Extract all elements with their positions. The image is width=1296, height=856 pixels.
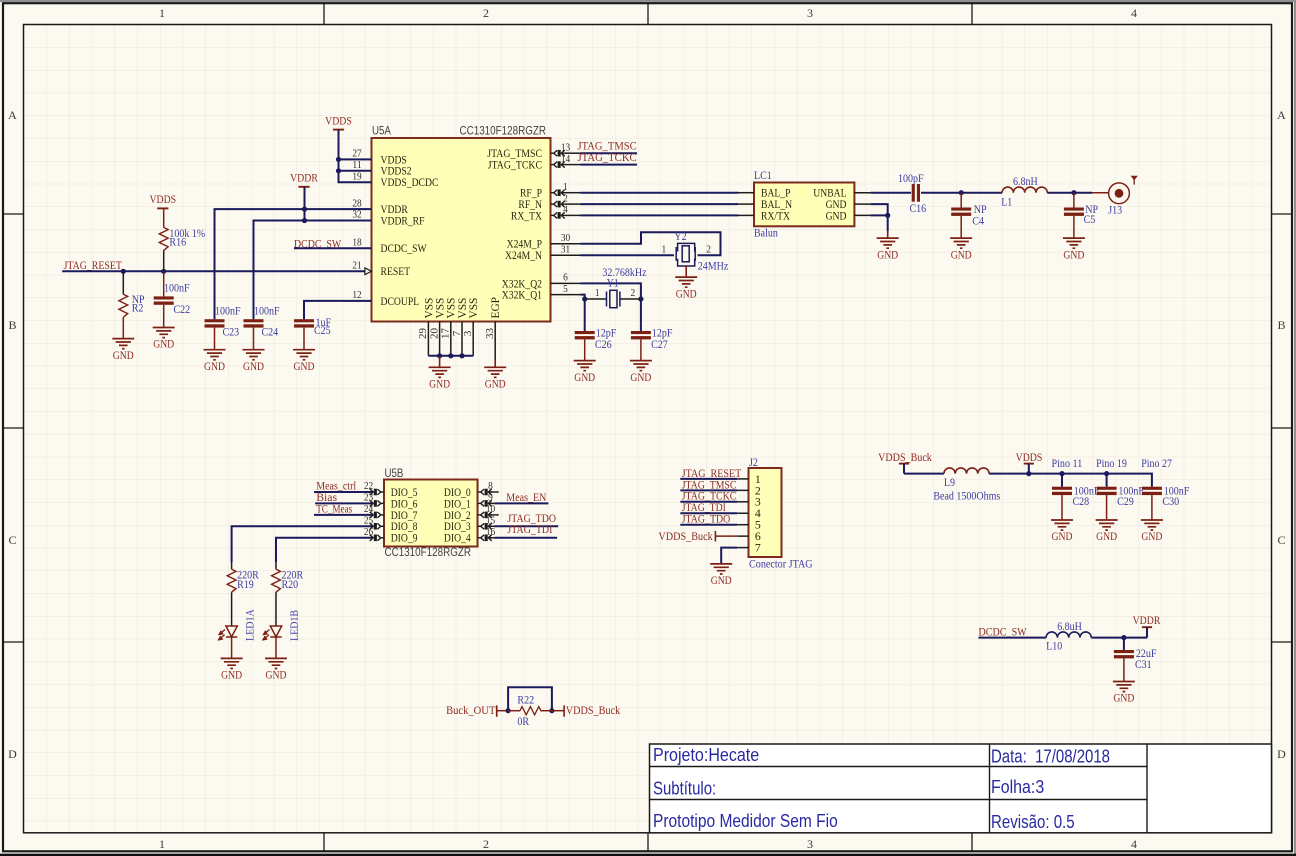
ground symbol under C28 [1051,520,1073,530]
svg-text:VSS: VSS [423,298,435,319]
svg-text:19: 19 [352,170,362,182]
svg-text:7: 7 [755,541,761,555]
U5A pin 4 RX_TX [511,204,581,223]
capacitor C26 12pF [575,328,617,361]
junction VDDR pin32 [302,218,307,223]
svg-text:A: A [8,108,17,122]
svg-text:CC1310F128RGZR: CC1310F128RGZR [385,546,472,559]
svg-text:D: D [1277,747,1286,761]
svg-text:VDDS: VDDS [381,154,407,166]
svg-text:GND: GND [1113,692,1134,705]
svg-text:32: 32 [352,209,361,221]
svg-text:DIO_2: DIO_2 [444,510,471,522]
U5A pin 32 VDDR_RF [341,209,425,228]
svg-text:RF_N: RF_N [518,199,542,211]
svg-text:100nF: 100nF [254,306,280,318]
wire C16 to L1 [921,192,1002,194]
U5B pin 23 DIO_6 [364,492,418,511]
svg-text:A: A [1277,108,1286,122]
wire X24M_P to Y2 pin2 [581,232,721,255]
wire L10 to VDDR [1091,637,1147,639]
svg-text:Balun: Balun [754,228,778,240]
svg-text:B: B [1277,318,1285,332]
junction VDDS tap [1026,471,1031,476]
svg-text:DCDC_SW: DCDC_SW [381,243,427,255]
ground symbol under C22 [153,328,175,338]
svg-text:Pino 27: Pino 27 [1141,458,1172,470]
svg-text:BAL_P: BAL_P [761,188,791,200]
U5A pin 21 RESET [341,260,410,279]
ground symbol under C23 [204,350,226,360]
svg-text:13: 13 [561,141,571,153]
stub U5B pin 10 [494,514,498,516]
wire VDDR to pin 28 and C23 [215,209,372,319]
svg-text:X24M_P: X24M_P [507,239,542,251]
svg-text:GND: GND [204,360,225,373]
wire X24M_N to Y2 pin1 [581,254,675,256]
ground symbol under C27 [630,361,652,371]
svg-text:15: 15 [486,515,496,527]
wire Bias [315,502,371,504]
ground symbol under C24 [243,350,265,360]
svg-text:12: 12 [352,289,361,301]
svg-text:24MHz: 24MHz [698,261,729,273]
svg-text:GND: GND [221,669,242,682]
svg-text:DIO_0: DIO_0 [444,487,471,499]
J2 pin 1 [737,472,761,486]
svg-text:X24M_N: X24M_N [505,250,542,262]
svg-text:Y1: Y1 [607,278,619,290]
svg-text:BAL_N: BAL_N [761,199,792,211]
svg-text:33: 33 [484,328,496,340]
U5A pin 33 EGP [484,297,502,360]
svg-text:JTAG_RESET: JTAG_RESET [64,258,123,272]
svg-text:R22: R22 [517,694,534,706]
svg-text:DIO_3: DIO_3 [444,521,471,533]
ground symbol under C25 [293,350,315,360]
LED LED1A [219,609,257,641]
capacitor C31 22uF [1114,638,1157,682]
junction C4 tap [959,190,964,195]
svg-text:GND: GND [630,371,651,384]
ground symbol under J2 [710,564,732,574]
svg-text:VSS: VSS [468,298,480,319]
svg-text:DIO_6: DIO_6 [391,498,418,510]
wire X32K_Q2 to Y1 pin2 [581,283,641,299]
svg-text:100nF: 100nF [164,283,190,295]
resistor R22 0R [508,694,552,728]
ground symbol under LED1B [275,637,277,658]
capacitor C23 100nF [205,306,241,350]
wire Y1 pin2 to C27 [640,299,642,331]
junction Y1 pin1 / C26 [582,296,587,301]
junction C31 tap [1121,635,1126,640]
svg-text:X32K_Q1: X32K_Q1 [502,290,542,302]
junction VDDS pin11 [336,168,341,173]
svg-text:C26: C26 [595,339,612,351]
svg-text:Bead 1500Ohms: Bead 1500Ohms [933,491,1000,503]
svg-text:14: 14 [561,153,571,165]
capacitor C28 100nF [1052,474,1099,520]
svg-text:J13: J13 [1108,205,1122,217]
LC1 pin BAL_N [738,199,792,211]
U5B pin 16 DIO_4 [444,526,496,545]
junction VDDS pin27 [336,157,341,162]
svg-text:X32K_Q2: X32K_Q2 [502,278,542,290]
wire RX_TX to balun [581,214,739,216]
wire JTAG_TMSC to J2 [680,489,737,491]
svg-text:B: B [8,318,16,332]
LC1 pin GND right [826,199,871,211]
capacitor C30 100nF [1142,485,1189,520]
svg-text:Prototipo Medidor Sem Fio: Prototipo Medidor Sem Fio [653,811,838,831]
svg-text:3: 3 [462,330,474,336]
wire DIO_8 to R19 [232,526,372,562]
svg-text:Meas_EN: Meas_EN [506,490,546,504]
svg-text:VDDS_Buck: VDDS_Buck [658,529,712,543]
svg-text:DIO_8: DIO_8 [391,521,418,533]
wire J2 pin7 to ground [721,548,737,564]
wire JTAG_TCKC to J2 [680,501,737,503]
ground symbol under Y2 [685,266,687,277]
wire VDDS_Buck to L9 [904,473,944,475]
U5B pin 24 DIO_7 [364,503,418,522]
junction C5 tap [1071,190,1076,195]
J2 pin 2 [737,483,761,497]
resistor R20 220R [272,562,304,626]
svg-text:Y2: Y2 [674,231,686,243]
svg-text:2: 2 [706,243,711,255]
U5A pin 18 DCDC_SW [341,236,427,255]
capacitor C4 NP [951,193,986,238]
svg-text:U5B: U5B [385,467,404,480]
LC1 pin RX/TX [738,210,791,222]
svg-text:R19: R19 [237,579,254,591]
svg-text:23: 23 [364,492,374,504]
svg-text:100nF: 100nF [215,306,241,318]
junction VSS bus 1 [437,353,442,358]
svg-text:6: 6 [563,272,568,284]
U5A pin 1 RF_P [520,181,581,200]
U5A pin 31 X24M_N [505,243,581,262]
junction Y1 pin2 / C27 [638,296,643,301]
svg-text:C24: C24 [262,327,279,339]
svg-text:DIO_7: DIO_7 [391,510,418,522]
U5A pin 13 JTAG_TMSC [487,141,580,160]
J2 pin 4 [737,506,761,520]
op IC U5A CC1310F128RGZR body [372,138,551,322]
svg-text:U5A: U5A [372,125,391,138]
ground symbol under VSS bus [439,356,441,368]
svg-text:VDDR: VDDR [1133,613,1161,627]
U5A pin 28 VDDR [341,197,408,216]
wire JTAG_RESET to J2 [680,478,737,480]
svg-text:2: 2 [631,287,636,299]
svg-text:26: 26 [364,526,374,538]
U5A pin 3 VSS [462,298,480,356]
J2 pin 6 [737,529,761,543]
junction JTAG_RESET / R16 C22 [161,269,166,274]
svg-text:18: 18 [352,236,362,248]
svg-text:RX/TX: RX/TX [761,210,791,222]
ground symbol under C29 [1096,520,1118,530]
svg-text:32.768kHz: 32.768kHz [602,267,646,279]
svg-text:4: 4 [1131,6,1137,20]
svg-text:0R: 0R [517,716,529,728]
svg-text:2: 2 [483,837,489,851]
svg-text:28: 28 [352,197,362,209]
wire RF_P to balun [581,192,739,194]
svg-text:VSS: VSS [457,298,469,319]
svg-text:VDDS_DCDC: VDDS_DCDC [381,177,439,189]
ground symbol under R2 [112,339,134,349]
wire VSS bus [428,355,473,357]
ground symbol under EGP [494,360,496,367]
wire L1 to J13 [1047,192,1092,194]
svg-text:31: 31 [561,243,570,255]
U5A pin 7 VSS [451,298,469,356]
wire JTAG_TDO to J2 [680,524,737,526]
junction R22 right [549,708,554,713]
wire JTAG_RESET to pin 21 [62,270,364,272]
svg-text:Subtítulo:: Subtítulo: [653,778,716,798]
wire JTAG_TMSC [581,152,638,154]
svg-text:JTAG_TDI: JTAG_TDI [507,522,552,536]
svg-text:VDDS: VDDS [1016,450,1043,464]
svg-text:24: 24 [364,503,374,515]
svg-text:RX_TX: RX_TX [511,210,543,222]
svg-text:GND: GND [1096,530,1117,543]
junction C28 tap [1059,471,1064,476]
svg-text:JTAG_TMSC: JTAG_TMSC [487,148,542,160]
svg-text:L9: L9 [944,477,955,489]
antenna marker [1131,176,1138,181]
svg-text:DCOUPL: DCOUPL [381,296,420,308]
svg-text:VDDS_Buck: VDDS_Buck [878,450,932,464]
svg-text:GND: GND [711,574,732,587]
svg-text:C4: C4 [972,215,984,227]
J2 pin 7 [737,541,761,555]
svg-text:JTAG_TCKC: JTAG_TCKC [488,160,542,172]
ground symbol under C26 [574,361,596,371]
svg-text:1: 1 [563,181,568,193]
U5B pin 22 DIO_5 [364,480,418,499]
U5A pin 20 VSS [428,298,446,356]
capacitor C27 12pF [631,328,673,361]
LED LED1B [263,610,301,641]
svg-text:2: 2 [563,192,568,204]
svg-text:R16: R16 [169,237,186,249]
svg-text:C30: C30 [1162,496,1179,508]
svg-text:GND: GND [574,371,595,384]
svg-text:VDDS_Buck: VDDS_Buck [566,703,620,717]
wire Meas_ctrl [314,491,371,493]
svg-text:GND: GND [676,287,697,300]
svg-text:RESET: RESET [381,266,411,278]
svg-text:VDDS2: VDDS2 [381,166,412,178]
wire UNBAL to C16 [871,192,911,194]
svg-text:5: 5 [563,283,568,295]
U5A pin 5 X32K_Q1 [502,283,581,302]
LC1 pin UNBAL right [813,188,870,200]
wire JTAG_TCKC [581,164,638,166]
wire bypass over R22 [508,687,552,711]
svg-text:25: 25 [364,515,374,527]
U5A pin 12 DCOUPL [341,289,419,308]
svg-text:GND: GND [243,360,264,373]
svg-text:CC1310F128RGZR: CC1310F128RGZR [460,125,547,138]
resistor R16 100k 1% [159,208,205,271]
svg-text:GND: GND [826,199,847,211]
svg-text:GND: GND [877,248,898,261]
svg-text:C23: C23 [223,327,240,339]
svg-text:JTAG_TCKC: JTAG_TCKC [578,150,637,164]
ground symbol under C5 [1063,238,1085,248]
svg-text:LC1: LC1 [754,170,772,182]
svg-text:C25: C25 [314,325,331,337]
wire Meas_EN [494,502,548,504]
junction VSS bus 2 [448,353,453,358]
crystal Y2 24MHz [662,231,729,273]
svg-text:L1: L1 [1001,197,1012,209]
capacitor C16 100pF series [898,173,926,215]
ground symbol under C4 [950,238,972,248]
inductor L10 6.8uH [1046,621,1091,653]
svg-text:VDDS: VDDS [149,192,176,206]
connector J2 body [749,468,782,557]
svg-text:27: 27 [352,148,362,160]
svg-text:Projeto:Hecate: Projeto:Hecate [653,745,759,765]
svg-text:VSS: VSS [435,298,447,319]
crystal Y1 32.768kHz [585,267,647,308]
svg-text:C22: C22 [174,304,191,316]
svg-text:GND: GND [485,378,506,391]
svg-text:LED1B: LED1B [289,610,301,641]
stub U5B pin 8 [494,491,498,493]
op IC U5B CC1310F128RGZR body [384,480,478,547]
U5A pin 6 X32K_Q2 [502,272,581,291]
resistor R2 NP [119,271,145,338]
svg-text:GND: GND [1063,248,1084,261]
U5A pin 27 VDDS [341,148,407,167]
ground symbol under balun [887,231,889,238]
junction C29 tap [1104,471,1109,476]
svg-text:C31: C31 [1135,659,1152,671]
svg-text:D: D [8,747,17,761]
svg-text:30: 30 [561,232,571,244]
capacitor C24 100nF [244,306,280,350]
wire RF_N to balun [581,203,739,205]
capacitor C29 100nF [1097,474,1144,520]
wire VDDR_RF to pin 32 and C24 [254,221,372,320]
title block [650,744,1272,833]
svg-text:VDDR: VDDR [290,171,318,185]
wire VDDS to pins 27/11/19 [339,130,372,183]
svg-text:GND: GND [153,338,174,351]
svg-text:C5: C5 [1084,214,1096,226]
balun LC1 body [754,183,854,227]
LC1 pin GND right [826,210,871,222]
junction R22 left [506,708,511,713]
U5B pin 25 DIO_8 [364,515,418,534]
svg-text:L10: L10 [1046,640,1062,652]
wire Y1 pin1 to C26 [584,299,586,331]
svg-text:Conector JTAG: Conector JTAG [749,559,813,571]
svg-text:GND: GND [951,248,972,261]
J2 pin 5 [737,518,761,532]
U5A pin 2 RF_N [518,192,580,211]
svg-text:GND: GND [1052,530,1073,543]
svg-text:C: C [1277,533,1285,547]
U5B pin 26 DIO_9 [364,526,418,545]
svg-text:VSS: VSS [446,298,458,319]
svg-text:Pino 19: Pino 19 [1096,458,1127,470]
svg-text:GND: GND [266,669,287,682]
wire TC_Meas [314,514,371,516]
svg-text:J2: J2 [749,457,758,469]
svg-text:RF_P: RF_P [520,188,542,200]
svg-text:C27: C27 [651,339,668,351]
svg-text:VDDS: VDDS [325,113,352,127]
svg-text:DCDC_SW: DCDC_SW [979,624,1028,638]
wire balun GND pins [871,204,888,231]
svg-text:6.8uH: 6.8uH [1057,621,1082,633]
ground symbol under C30 [1141,520,1163,530]
svg-text:GND: GND [294,360,315,373]
svg-text:C: C [8,533,16,547]
U5A pin 11 VDDS2 [341,159,412,178]
U5B pin 15 DIO_3 [444,515,496,534]
port VDDS_Buck right of R22 [563,705,565,716]
junction VDDR pin28 [302,207,307,212]
U5A pin 19 VDDS_DCDC [341,170,438,189]
svg-text:LED1A: LED1A [245,609,257,641]
svg-text:1: 1 [662,243,667,255]
wire DIO_9 to R20 [276,538,371,562]
U5B pin 9 DIO_1 [444,492,494,511]
svg-text:7: 7 [451,330,463,336]
svg-text:R2: R2 [132,302,144,314]
svg-text:4: 4 [1131,837,1137,851]
U5B pin 8 DIO_0 [444,480,494,499]
svg-text:VDDR_RF: VDDR_RF [381,215,425,227]
svg-text:12pF: 12pF [596,328,617,340]
svg-text:21: 21 [352,260,361,272]
wire DCOUPL to C25 [304,301,372,319]
svg-text:8: 8 [488,480,493,492]
wire JTAG_TDI to J2 [680,512,737,514]
wire L9 to C28 C29 C30 [989,474,1152,487]
svg-text:TC_Meas: TC_Meas [316,501,352,515]
svg-text:100pF: 100pF [898,173,924,185]
svg-text:16: 16 [486,526,496,538]
svg-text:C29: C29 [1117,496,1134,508]
connector J13 antenna jack [1092,183,1129,217]
svg-text:UNBAL: UNBAL [813,188,846,200]
LC1 pin BAL_P [738,188,791,200]
capacitor C5 NP [1064,193,1098,238]
svg-text:GND: GND [1141,530,1162,543]
svg-text:17: 17 [440,328,452,340]
wire JTAG_TDO at U5B [494,525,558,527]
U5A pin 14 JTAG_TCKC [488,153,581,172]
svg-text:3: 3 [807,837,813,851]
svg-text:4: 4 [563,204,568,216]
svg-text:DIO_9: DIO_9 [391,533,418,545]
svg-text:DIO_5: DIO_5 [391,487,418,499]
svg-text:C16: C16 [910,203,927,215]
J2 pin 3 [737,495,761,509]
